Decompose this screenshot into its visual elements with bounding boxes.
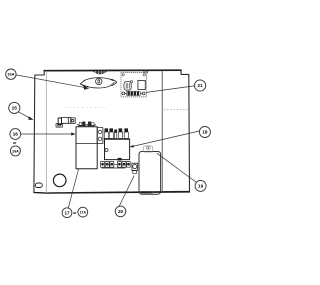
capacitor (items 17/17A target) — [76, 127, 97, 169]
capacitor side strip — [97, 128, 103, 144]
PCB relay square — [138, 80, 145, 89]
PCB terminal strip — [122, 91, 145, 95]
control panel outline — [34, 70, 190, 193]
svg-text:16A: 16A — [7, 72, 14, 77]
junction box (item 19/20 area) — [139, 152, 161, 195]
svg-text:17: 17 — [64, 210, 70, 215]
dotted fold line right face — [164, 109, 188, 111]
leader 21 — [146, 86, 194, 93]
svg-text:20: 20 — [118, 209, 124, 214]
svg-text:16A: 16A — [12, 149, 19, 153]
lens oval (item 16A target) — [80, 78, 117, 88]
panel bottom edge (thick) — [34, 192, 190, 193]
flange slot — [35, 183, 42, 188]
svg-text:or: or — [73, 211, 77, 215]
leader 19 — [157, 153, 196, 182]
lens center circle — [96, 78, 102, 84]
small solenoid component — [56, 117, 75, 127]
leader 16A top — [16, 75, 86, 88]
spark module PCB (item 21 target) — [121, 73, 146, 97]
svg-text:or: or — [13, 141, 17, 145]
junction box bottom tab — [140, 191, 152, 193]
leader 16 — [21, 133, 73, 135]
small notch under top edge — [144, 71, 148, 73]
svg-text:19: 19 — [198, 184, 204, 189]
panel top edge (thick) — [44, 69, 181, 72]
left flange bend line — [45, 71, 47, 193]
svg-text:15: 15 — [12, 106, 18, 112]
capacitor terminals — [77, 122, 96, 126]
leader 18 — [130, 131, 200, 147]
relay body (item 18 target) — [105, 139, 130, 159]
leader 17 — [68, 169, 78, 208]
callout 21 — [195, 80, 206, 91]
callout 19 — [195, 180, 206, 191]
junction box top tab — [143, 146, 153, 152]
relay bottom terminals — [101, 162, 131, 168]
hatched slot on top edge — [93, 71, 108, 74]
callout 16 — [10, 129, 21, 140]
leader 15 — [19, 112, 31, 118]
right seam line — [161, 70, 163, 192]
callout 16A (top) — [6, 69, 16, 79]
PCB mount holes — [122, 74, 124, 76]
callout 15 — [9, 102, 20, 113]
relay top terminals — [104, 129, 130, 139]
leader 20 — [119, 176, 134, 206]
svg-text:21: 21 — [198, 83, 204, 88]
callout 17A — [78, 207, 88, 217]
callout 17 — [62, 208, 72, 218]
callout 20 — [115, 206, 126, 217]
panel hole — [53, 174, 66, 187]
dotted fold line front face — [65, 107, 106, 109]
switch bracket (item 20 target) — [132, 163, 138, 170]
callout 18 — [199, 127, 210, 138]
svg-text:17A: 17A — [80, 211, 87, 215]
PCB buzzer — [124, 81, 131, 90]
callout 16A (lower) — [10, 146, 20, 156]
svg-text:16: 16 — [13, 132, 19, 138]
svg-text:18: 18 — [202, 130, 208, 135]
